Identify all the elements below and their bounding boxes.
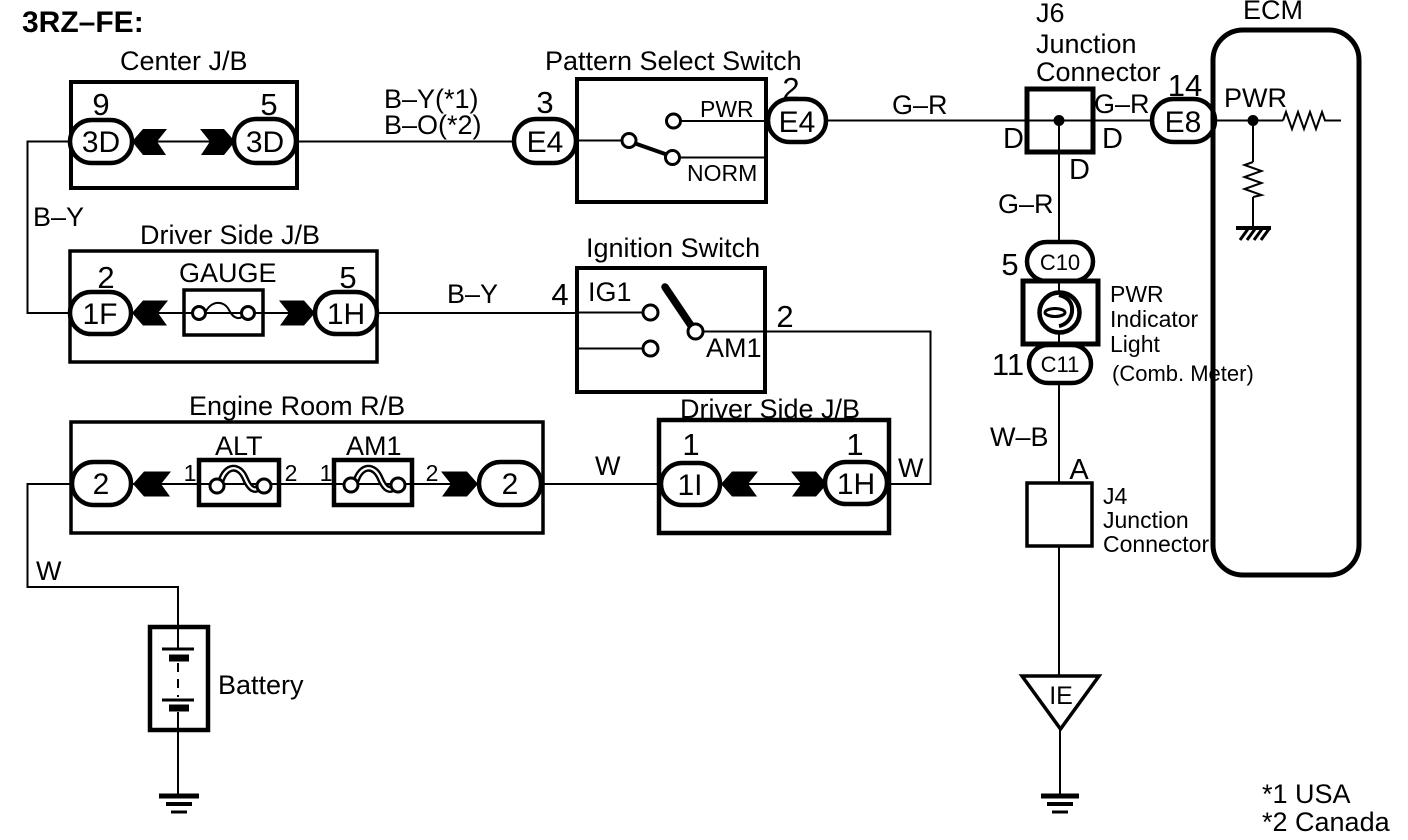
svg-text:E4: E4: [527, 126, 564, 159]
svg-text:Center J/B: Center J/B: [120, 46, 248, 76]
PWR contact: [667, 114, 681, 128]
connector 3D right: [234, 119, 296, 163]
IG1 contact: [643, 305, 658, 320]
svg-text:D: D: [1102, 123, 1123, 155]
fuse AM1 element: [356, 468, 396, 489]
wire from 3D left, down left side to 1F: [28, 142, 71, 314]
Ignition Switch box: [577, 268, 765, 392]
ground battery: [159, 796, 199, 812]
fuse GAUGE left terminal: [193, 307, 206, 320]
ignition lever: [665, 287, 692, 327]
wire down from node: [1252, 121, 1254, 163]
wire battery to ground: [177, 730, 179, 794]
ECM box: [1213, 30, 1359, 575]
svg-text:1: 1: [846, 427, 863, 462]
svg-text:B–Y: B–Y: [33, 202, 84, 232]
connector 1H: [315, 292, 377, 334]
svg-text:2: 2: [502, 468, 519, 501]
battery dashed center: [177, 663, 179, 697]
node dot J6: [1054, 115, 1065, 126]
connector C11: [1029, 345, 1091, 383]
wire J4 to IE: [1058, 546, 1060, 676]
resistor vertical: [1245, 162, 1262, 197]
wire J6 down to C10: [1058, 121, 1060, 247]
svg-text:Junction: Junction: [1103, 507, 1189, 533]
wire through J6: [1028, 120, 1092, 122]
fuse AM1 left terminal: [344, 478, 358, 492]
switch lever: [634, 143, 668, 155]
svg-text:D: D: [1069, 154, 1090, 186]
svg-text:A: A: [1069, 454, 1089, 486]
svg-text:W: W: [898, 453, 924, 483]
node dot ECM: [1248, 115, 1259, 126]
svg-text:AM1: AM1: [706, 333, 762, 363]
svg-text:C11: C11: [1041, 352, 1080, 377]
svg-text:1H: 1H: [837, 468, 875, 501]
svg-text:E4: E4: [779, 106, 816, 139]
fuse ALT left terminal: [210, 479, 224, 493]
arrow left: [132, 129, 167, 155]
svg-text:4: 4: [551, 277, 568, 312]
arrow left: [721, 472, 758, 497]
svg-text:1: 1: [320, 460, 333, 486]
svg-text:*1 USA: *1 USA: [1262, 779, 1351, 809]
svg-text:E8: E8: [1165, 106, 1202, 139]
connector 2 right: [479, 462, 541, 505]
arrow right: [441, 472, 478, 497]
svg-text:IG1: IG1: [588, 277, 632, 307]
fuse AM1 right terminal: [391, 478, 405, 492]
svg-text:IE: IE: [1049, 682, 1073, 710]
svg-text:2: 2: [426, 460, 439, 486]
wire 3D right to E4: [296, 141, 516, 143]
NORM contact: [666, 151, 680, 165]
svg-text:3D: 3D: [246, 126, 284, 159]
connector 2 left: [72, 462, 131, 505]
wire NORM contact to box edge: [679, 157, 766, 159]
wire 1H to ignition switch: [377, 312, 577, 314]
svg-text:3D: 3D: [82, 126, 120, 159]
svg-text:W–B: W–B: [990, 422, 1049, 452]
battery bottom plates: [162, 699, 194, 702]
fuse AM1 box: [334, 460, 412, 505]
fuse ALT box: [199, 460, 279, 505]
connector 1I: [661, 463, 720, 505]
common contact: [622, 134, 636, 148]
Engine Room R/B box: [71, 422, 543, 533]
arrow left: [132, 301, 168, 326]
J4 junction connector box: [1027, 483, 1092, 546]
ground IE: [1041, 796, 1079, 812]
wire ER right to 1I: [541, 483, 661, 485]
resistor horizontal: [1283, 112, 1341, 129]
connector C10: [1027, 242, 1093, 281]
J6 junction connector box: [1027, 89, 1093, 152]
svg-text:NORM: NORM: [687, 160, 757, 186]
wire through lamp: [1058, 281, 1060, 300]
svg-text:J6: J6: [1036, 0, 1065, 28]
arrow right: [200, 129, 235, 155]
arrow left: [133, 472, 171, 497]
fuse ALT right terminal: [257, 479, 271, 493]
svg-text:C10: C10: [1040, 250, 1080, 275]
wire into IG1: [577, 312, 643, 314]
svg-text:G–R: G–R: [892, 90, 948, 120]
svg-text:3RZ–FE:: 3RZ–FE:: [22, 6, 144, 39]
svg-text:D: D: [1003, 123, 1024, 155]
unused contact: [643, 341, 658, 356]
svg-text:PWR: PWR: [700, 96, 754, 122]
wire between 3D connectors: [130, 141, 236, 143]
svg-text:9: 9: [92, 87, 109, 122]
wire E4 to J6: [826, 120, 1028, 122]
svg-text:G–R: G–R: [998, 189, 1054, 219]
svg-text:Light: Light: [1110, 331, 1160, 357]
svg-text:Connector: Connector: [1036, 57, 1161, 87]
wire IE to ground: [1059, 729, 1061, 794]
svg-text:W: W: [595, 451, 621, 481]
svg-text:J4: J4: [1103, 483, 1128, 509]
Driver Side J/B lower box: [659, 420, 889, 533]
svg-text:(Comb. Meter): (Comb. Meter): [1112, 361, 1254, 386]
svg-text:1H: 1H: [327, 298, 365, 331]
svg-text:Junction: Junction: [1036, 29, 1137, 59]
svg-text:PWR: PWR: [1110, 281, 1164, 307]
svg-text:Pattern Select Switch: Pattern Select Switch: [545, 46, 802, 76]
svg-text:11: 11: [992, 347, 1024, 382]
svg-text:ALT: ALT: [215, 431, 263, 461]
unused contact wire: [577, 348, 643, 350]
svg-text:Indicator: Indicator: [1110, 306, 1199, 332]
connector E4 left: [514, 119, 576, 163]
battery box: [150, 627, 208, 730]
svg-text:3: 3: [536, 85, 553, 120]
svg-text:Connector: Connector: [1103, 531, 1209, 557]
wire across: [718, 483, 828, 485]
svg-text:5: 5: [1001, 247, 1018, 282]
arrow right: [279, 301, 315, 326]
svg-text:1: 1: [682, 427, 699, 462]
svg-text:AM1: AM1: [346, 431, 402, 461]
svg-text:1: 1: [184, 460, 197, 486]
svg-text:B–Y: B–Y: [447, 279, 498, 309]
wire ER left down to battery: [28, 484, 179, 627]
wire C11 to J4: [1058, 383, 1060, 483]
connector E4 right: [768, 99, 826, 142]
fuse GAUGE box: [184, 290, 263, 335]
svg-text:ECM: ECM: [1243, 0, 1303, 25]
wire E8 into ECM: [1215, 120, 1283, 122]
svg-text:PWR: PWR: [1224, 83, 1287, 113]
Driver Side J/B box: [70, 251, 377, 362]
svg-text:1I: 1I: [677, 469, 702, 502]
Pattern Select Switch box: [577, 79, 766, 202]
svg-text:2: 2: [776, 299, 793, 334]
svg-text:W: W: [36, 556, 62, 586]
svg-text:Engine Room R/B: Engine Room R/B: [189, 391, 405, 421]
PWR indicator lamp: [1040, 293, 1080, 333]
wire J6 to E8: [1093, 120, 1154, 122]
connector IE triangle: [1022, 676, 1099, 729]
fuse ALT element: [221, 468, 261, 489]
connector 3D left: [70, 120, 132, 163]
wire AM1 to lower J/B 1H: [703, 332, 931, 485]
wire across J/B: [128, 312, 318, 314]
svg-text:G–R: G–R: [1094, 89, 1150, 119]
wire into common contact: [577, 140, 622, 142]
arrow right: [791, 472, 827, 497]
battery top plates: [177, 627, 179, 649]
svg-text:1F: 1F: [82, 298, 117, 331]
ECM ground (hatched): [1236, 228, 1271, 240]
svg-text:Battery: Battery: [218, 670, 304, 700]
svg-text:*2 Canada: *2 Canada: [1262, 807, 1391, 837]
fuse GAUGE right terminal: [242, 307, 255, 320]
lamp box: [1023, 281, 1098, 344]
connector 1F: [70, 292, 131, 334]
AM1 contact: [688, 324, 703, 339]
fuse GAUGE element: [205, 303, 244, 318]
wire to ECM ground: [1252, 197, 1254, 228]
Center J/B box: [71, 82, 297, 188]
svg-text:GAUGE: GAUGE: [179, 258, 277, 288]
wire PWR contact to box edge: [680, 120, 766, 122]
wire across R/B: [128, 483, 484, 485]
connector E8: [1152, 99, 1215, 142]
svg-text:2: 2: [285, 460, 298, 486]
svg-text:B–O(*2): B–O(*2): [384, 110, 482, 140]
svg-text:Driver Side J/B: Driver Side J/B: [140, 220, 320, 250]
svg-text:Ignition Switch: Ignition Switch: [586, 233, 760, 263]
svg-text:2: 2: [93, 468, 110, 501]
connector 1H: [825, 462, 887, 504]
